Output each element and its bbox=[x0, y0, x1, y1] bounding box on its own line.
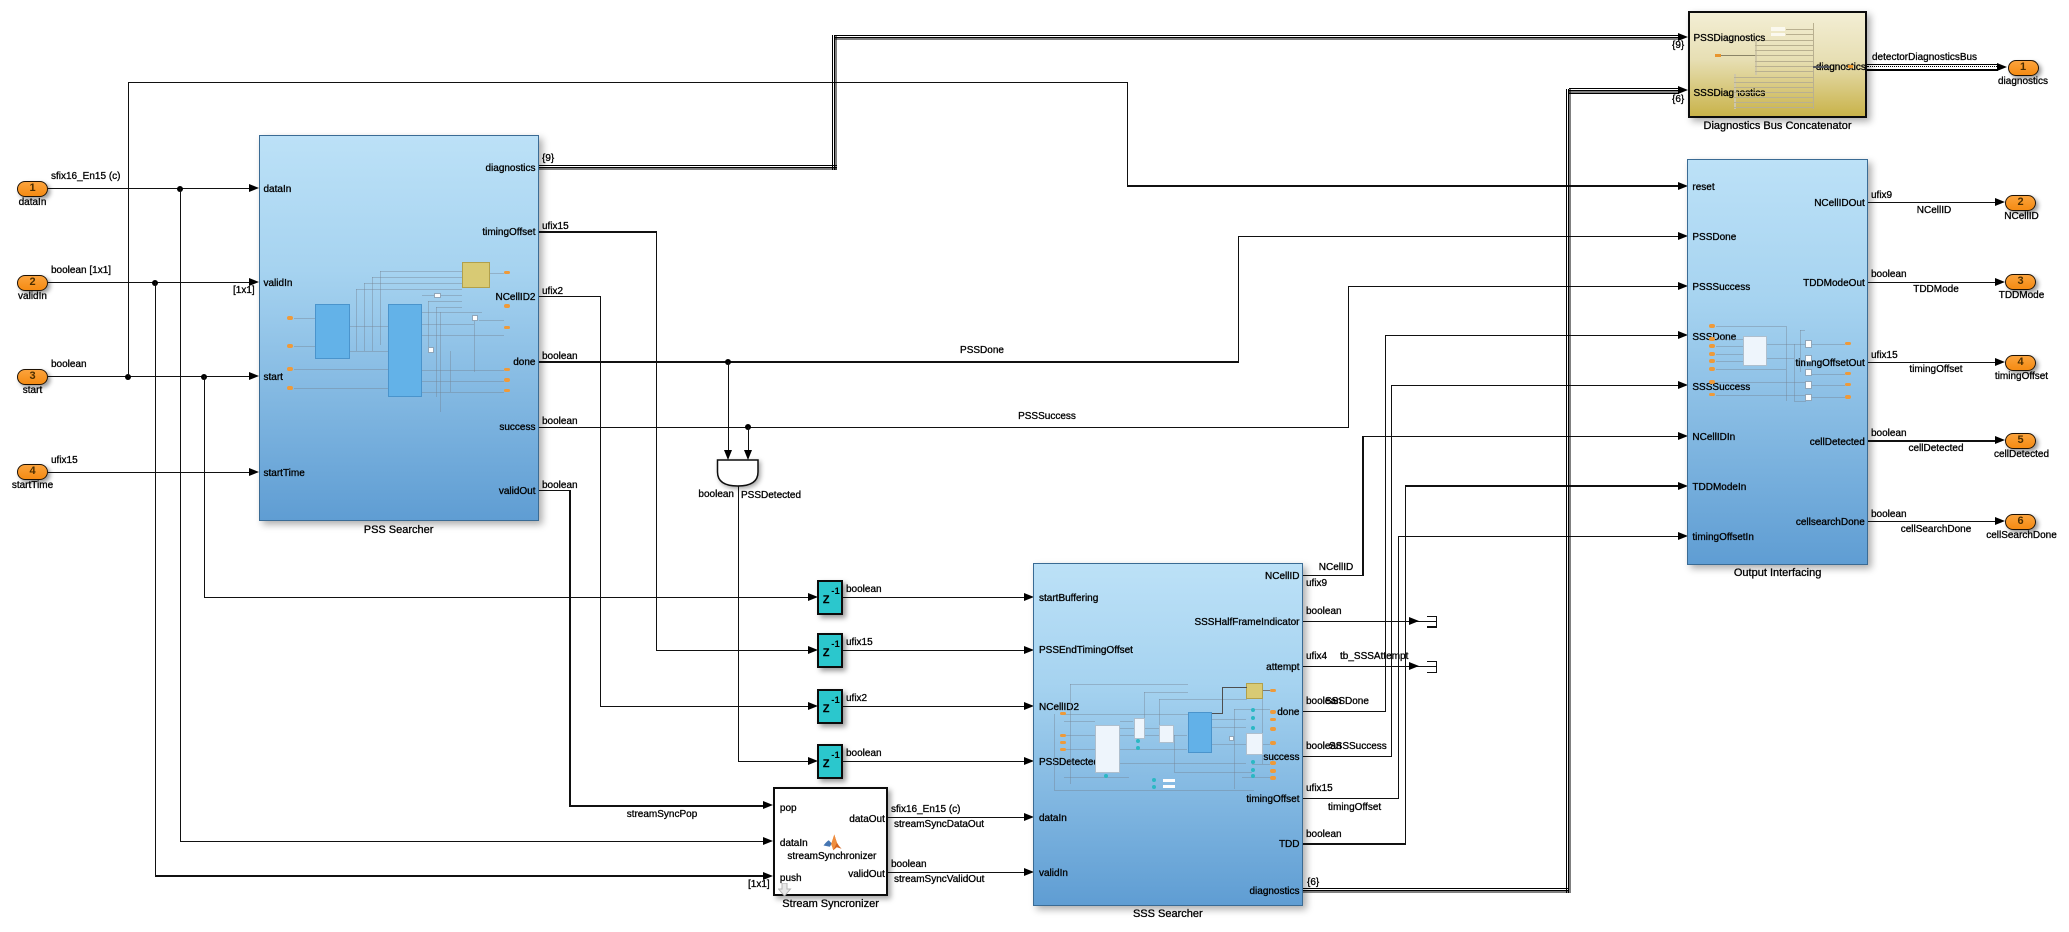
wire startTime to PSS Searcher bbox=[48, 472, 249, 473]
wire Stream Syncronizer validOut to SSS validIn bbox=[888, 872, 1024, 873]
preview subsystem rect bbox=[315, 304, 350, 359]
wire PSS success to Output Interfacing PSSSuccess bbox=[539, 427, 1349, 428]
wire SSS TDD to Output Interfacing TDDModeIn bbox=[1303, 843, 1406, 844]
wire SSS NCellID to Output Interfacing NCellIDIn bbox=[1303, 575, 1363, 576]
preview pins bbox=[287, 316, 294, 320]
wire dataIn vertical to Stream Syncronizer dataIn bbox=[180, 188, 181, 842]
node junction success to gate bbox=[745, 424, 751, 430]
bus SSS diagnostics {6} to Diagnostics Bus Concatenator bbox=[1303, 888, 1569, 894]
wire Output Interfacing NCellIDOut to port 2 bbox=[1868, 202, 1996, 203]
preview lines bbox=[1813, 23, 1814, 109]
preview white squares bbox=[434, 293, 441, 298]
wire start down to delay1 bbox=[204, 376, 205, 597]
wire gate output down to delay4 bbox=[738, 486, 739, 761]
block Output Interfacing bbox=[1687, 159, 1867, 565]
wire delay3 to SSS NCellID2 bbox=[843, 706, 1024, 707]
block Stream Syncronizer bbox=[773, 787, 888, 897]
terminator 2 bbox=[1419, 666, 1438, 667]
preview orange pins bbox=[1060, 712, 1066, 716]
wire Output Interfacing cellsearchDone to port 6 bbox=[1868, 521, 1996, 522]
wire PSS validOut to Stream Syncronizer pop bbox=[539, 490, 570, 491]
preview small squares bbox=[1805, 340, 1812, 348]
port 4 timingOffset bbox=[2005, 355, 2036, 371]
wire SSS timingOffset to Output Interfacing timingOffsetIn bbox=[1303, 798, 1399, 799]
preview white rect bbox=[1743, 336, 1767, 366]
preview pins bbox=[1709, 324, 1715, 328]
wire Output Interfacing timingOffsetOut to port 4 bbox=[1868, 362, 1996, 363]
preview subsystem rect bbox=[388, 304, 422, 397]
delay block Z3 bbox=[817, 689, 843, 724]
wire PSS NCellID2 down to delay3 bbox=[539, 296, 601, 297]
delay block Z4 bbox=[817, 744, 843, 779]
node junction done to gate bbox=[725, 359, 731, 365]
port 6 cellSearchDone bbox=[2005, 514, 2036, 530]
wire Output Interfacing TDDModeOut to port 3 bbox=[1868, 282, 1996, 283]
port 2 NCellID bbox=[2005, 195, 2036, 211]
preview wires bbox=[294, 318, 315, 319]
preview equals bbox=[1163, 779, 1175, 783]
wire SSS attempt to terminator bbox=[1303, 666, 1419, 667]
delay block Z2 bbox=[817, 633, 843, 668]
terminator 1 bbox=[1419, 621, 1438, 622]
port 3 start bbox=[17, 369, 48, 385]
wire validIn vertical to Stream Syncronizer push bbox=[155, 282, 156, 876]
node junction dataIn bbox=[177, 186, 183, 192]
preview dark wire bbox=[1222, 687, 1247, 688]
wire delay2 to SSS PSSEndTimingOffset bbox=[843, 650, 1024, 651]
preview wires bbox=[1064, 714, 1188, 715]
preview yellow rect bbox=[1246, 683, 1263, 698]
node junction start-delay bbox=[201, 374, 207, 380]
wire PSS timingOffset down to delay2 bbox=[539, 231, 657, 232]
wire delay1 to SSS startBuffering bbox=[843, 597, 1024, 598]
block SSS Searcher bbox=[1033, 563, 1303, 906]
port 3 TDDMode bbox=[2005, 274, 2036, 290]
port 1 diagnostics bbox=[2008, 60, 2039, 76]
bus detectorDiagnosticsBus to port 1 bbox=[1867, 64, 1998, 65]
node junction validIn bbox=[152, 280, 158, 286]
wire Output Interfacing cellDetected to port 5 bbox=[1868, 440, 1996, 441]
wire Stream Syncronizer dataOut to SSS dataIn bbox=[888, 817, 1024, 818]
wire SSS SSSHalfFrameIndicator to terminator bbox=[1303, 621, 1419, 622]
wire SSS done to Output Interfacing SSSDone bbox=[1303, 711, 1386, 712]
delay block Z1 bbox=[817, 580, 843, 615]
block Diagnostics Bus Concatenator bbox=[1688, 11, 1868, 117]
wire dataIn to PSS Searcher bbox=[48, 188, 249, 189]
matlab logo bbox=[823, 834, 842, 851]
port 5 cellDetected bbox=[2005, 433, 2036, 449]
node junction start-reset bbox=[125, 374, 131, 380]
preview cyan dots bbox=[1251, 708, 1255, 712]
preview yellow block bbox=[462, 262, 491, 288]
block PSS Searcher bbox=[259, 135, 539, 522]
preview blue rect bbox=[1188, 712, 1212, 753]
port 2 validIn bbox=[17, 275, 48, 291]
wire PSS done to Output Interfacing PSSDone bbox=[539, 361, 1239, 362]
wire delay4 to SSS PSSDetected bbox=[843, 761, 1024, 762]
grey arrow icon bbox=[778, 883, 792, 897]
preview rects bbox=[1095, 725, 1120, 773]
wire SSS success to Output Interfacing SSSSuccess bbox=[1303, 756, 1392, 757]
wire validIn to PSS Searcher bbox=[48, 282, 249, 283]
preview wires bbox=[1716, 326, 1786, 327]
wire start up and across to Output Interfacing reset bbox=[128, 82, 129, 377]
bus PSS diagnostics {9} to Diagnostics Bus Concatenator bbox=[539, 165, 837, 171]
wire start to PSS Searcher bbox=[48, 376, 249, 377]
port 4 startTime bbox=[17, 464, 48, 480]
port 1 dataIn bbox=[17, 181, 48, 197]
merge gate PSSDetected bbox=[712, 456, 766, 496]
